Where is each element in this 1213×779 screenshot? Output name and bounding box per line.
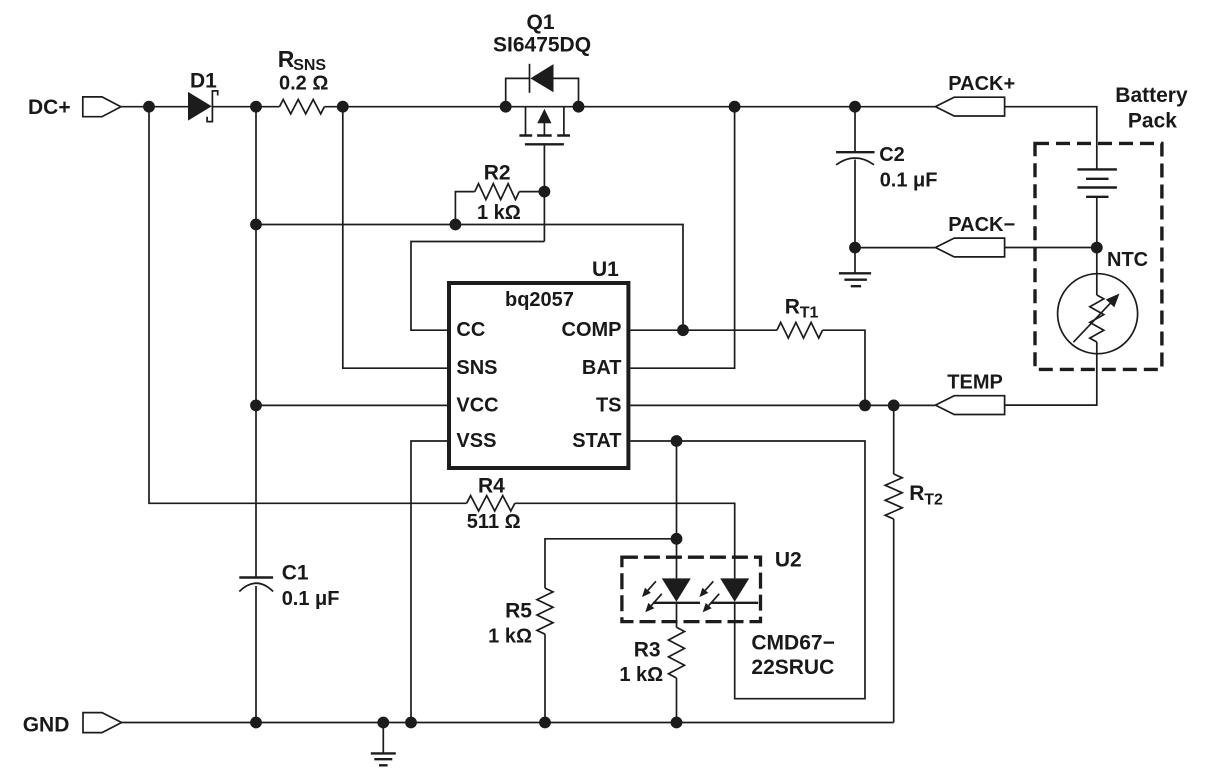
svg-text:D1: D1 <box>190 70 217 93</box>
svg-text:T2: T2 <box>924 492 943 509</box>
node NTC junction <box>1091 242 1103 254</box>
svg-text:511 Ω: 511 Ω <box>467 511 521 533</box>
wire Q1 gate down <box>543 144 545 241</box>
node R2 left lead junction <box>450 219 462 231</box>
node ground rail C1 <box>250 717 262 729</box>
svg-text:BAT: BAT <box>582 357 622 379</box>
wire C1 bottom to ground rail <box>255 586 257 723</box>
transistor Q1 source stub <box>525 107 527 136</box>
svg-text:PACK+: PACK+ <box>948 73 1015 95</box>
node ground rail R5 <box>539 717 551 729</box>
wire TS node to RT2 <box>893 405 895 474</box>
wire top rail RSNS to PACK+ <box>324 106 935 108</box>
wire STAT node down to LED1 <box>676 441 678 578</box>
svg-text:C1: C1 <box>282 561 309 584</box>
svg-text:VSS: VSS <box>456 430 496 452</box>
svg-text:TEMP: TEMP <box>947 371 1003 393</box>
resistor R4 <box>467 496 515 511</box>
transistor Q1 channel bars <box>519 134 570 136</box>
node ground rail VSS <box>405 717 417 729</box>
svg-text:U2: U2 <box>775 549 802 572</box>
svg-text:GND: GND <box>23 713 70 736</box>
svg-text:DC+: DC+ <box>28 96 71 119</box>
svg-text:1 kΩ: 1 kΩ <box>488 626 532 648</box>
resistor RT2 <box>885 474 902 519</box>
dashed box U2 <box>622 557 761 621</box>
svg-text:U1: U1 <box>592 258 619 281</box>
port PACK+ tag <box>935 97 1004 116</box>
svg-text:R: R <box>785 296 800 319</box>
wire LED1 cathode to R3 <box>676 602 678 628</box>
svg-text:Pack: Pack <box>1128 110 1177 133</box>
node BAT rail junction <box>729 101 741 113</box>
svg-text:R2: R2 <box>484 162 511 185</box>
node COMP junction <box>677 324 689 336</box>
transistor Q1 drain stub <box>563 107 565 136</box>
node RSNS right junction <box>337 101 349 113</box>
wire DC+ node down to R4 <box>149 107 467 504</box>
node C2 rail junction <box>849 101 861 113</box>
thermistor NTC arrow line <box>1073 303 1110 342</box>
svg-text:1 kΩ: 1 kΩ <box>477 202 521 224</box>
thermistor NTC arrow head <box>1106 294 1120 308</box>
svg-text:1 kΩ: 1 kΩ <box>619 664 663 686</box>
node VCC junction <box>250 400 262 412</box>
port GND tag <box>83 713 122 733</box>
resistor R3 <box>669 627 685 678</box>
node ground rail earth stub <box>377 717 389 729</box>
wire NTC bottom to TEMP line <box>1005 342 1097 405</box>
node D1 cathode junction <box>250 101 262 113</box>
port DC+ tag <box>83 97 121 117</box>
wire PACK- to NTC node <box>1005 247 1097 249</box>
resistor RSNS <box>280 100 325 114</box>
thermistor NTC circle <box>1058 274 1138 354</box>
wire vertical from D1 node through C1 <box>255 107 257 578</box>
ground symbol C2 stub <box>854 248 856 274</box>
svg-text:0.1 μF: 0.1 μF <box>880 169 938 191</box>
wire RSNS node to SNS pin <box>343 107 447 369</box>
node Q1 source junction <box>500 101 512 113</box>
wire STAT pin and LED2 return loop <box>630 441 865 699</box>
svg-text:R4: R4 <box>478 475 505 498</box>
svg-text:R: R <box>909 482 924 505</box>
transistor Q1 gate plate <box>525 143 564 145</box>
wire R2 line to COMP node <box>256 225 683 331</box>
thermistor NTC zigzag <box>1090 295 1104 342</box>
svg-text:0.1 μF: 0.1 μF <box>282 588 340 610</box>
wire COMP pin to RT1 <box>630 329 777 331</box>
wire VCC pin <box>256 404 447 406</box>
wire ground rail <box>122 722 894 724</box>
wire R2 right lead <box>519 191 544 193</box>
svg-text:STAT: STAT <box>572 430 621 452</box>
transistor Q1 body-diode triangle <box>530 64 553 92</box>
LED left cathode bar <box>653 602 700 604</box>
wire R5 top lead <box>545 539 677 588</box>
capacitor C2 curved plate <box>836 158 874 165</box>
svg-text:COMP: COMP <box>562 319 622 341</box>
ground symbol bottom stub <box>382 723 384 754</box>
node DC+ junction <box>143 101 155 113</box>
wire C2 node to PACK- tag <box>855 247 935 249</box>
wire R5 bottom lead <box>544 634 546 722</box>
svg-text:Battery: Battery <box>1115 84 1188 107</box>
svg-text:SNS: SNS <box>456 357 497 379</box>
resistor R2 <box>475 184 519 200</box>
wire TS pin to TEMP tag <box>630 404 935 406</box>
wire top rail DC+ to D1 anode <box>121 106 189 108</box>
svg-text:Q1: Q1 <box>527 11 555 34</box>
svg-text:PACK−: PACK− <box>948 214 1015 236</box>
capacitor C2 top plate <box>836 151 874 153</box>
svg-text:bq2057: bq2057 <box>505 289 574 311</box>
svg-text:R5: R5 <box>505 600 532 623</box>
svg-text:0.2 Ω: 0.2 Ω <box>279 73 328 95</box>
node R2 line left junction <box>250 219 262 231</box>
port TEMP tag <box>935 396 1004 415</box>
svg-text:VCC: VCC <box>456 394 498 416</box>
wire RT2 to ground rail <box>893 519 895 723</box>
node LED1-R5 junction <box>671 533 683 545</box>
port PACK- tag <box>935 238 1004 257</box>
node C2 PACK- junction <box>849 242 861 254</box>
LED right triangle <box>720 578 749 601</box>
wire BAT pin to top rail <box>630 107 734 369</box>
LED right cathode bar <box>711 602 758 604</box>
wire battery to NTC node <box>1096 197 1098 248</box>
node STAT junction <box>671 435 683 447</box>
wire R3 bottom to ground rail <box>676 678 678 723</box>
node TS-RT2 junction <box>888 400 900 412</box>
svg-text:R3: R3 <box>634 639 661 662</box>
LED left emission arrow heads <box>642 588 651 597</box>
battery cell plates <box>1077 169 1117 196</box>
node ground rail R3 <box>671 717 683 729</box>
wire R2 left lead <box>455 192 474 225</box>
capacitor C1 curved plate <box>239 583 273 591</box>
IC U1 box <box>449 283 628 468</box>
thermistor NTC top wire <box>1096 248 1098 295</box>
node TS-RT1 junction <box>859 400 871 412</box>
transistor Q1 body arrow line <box>543 120 545 137</box>
svg-text:NTC: NTC <box>1107 249 1148 271</box>
wire RT1 to TS line <box>823 330 866 405</box>
wire C2 bottom lead <box>854 160 856 248</box>
dashed box battery pack <box>1035 143 1162 369</box>
svg-text:CC: CC <box>456 319 485 341</box>
node Q1 drain junction <box>573 101 585 113</box>
wire R4 to LED2 anode <box>515 503 735 578</box>
svg-text:SI6475DQ: SI6475DQ <box>493 34 591 57</box>
transistor Q1 body-diode cathode wire <box>554 78 579 106</box>
resistor RT1 <box>777 322 823 338</box>
capacitor C1 top plate <box>239 576 273 578</box>
diode D1 schottky cathode bar <box>207 91 218 122</box>
transistor Q1 body-diode cathode bar <box>529 64 531 93</box>
ground symbol bottom bars <box>371 753 396 765</box>
wire D1 cathode to RSNS <box>212 106 279 108</box>
LED right emission arrow heads <box>699 588 708 597</box>
svg-text:22SRUC: 22SRUC <box>751 656 834 679</box>
LED right emission arrow lines <box>705 581 719 605</box>
wire gate line to CC pin <box>411 242 544 331</box>
svg-text:SNS: SNS <box>293 57 326 74</box>
resistor R5 <box>537 588 553 634</box>
wire C2 top lead <box>854 107 856 153</box>
LED left triangle <box>662 578 691 601</box>
svg-text:TS: TS <box>596 394 622 416</box>
wire PACK+ to battery <box>1005 107 1097 170</box>
svg-text:T1: T1 <box>800 305 819 322</box>
ground symbol C2 bars <box>839 273 871 286</box>
transistor Q1 body arrow head <box>537 109 551 123</box>
node R2 gate junction <box>539 186 551 198</box>
diode D1 triangle <box>188 92 212 121</box>
transistor Q1 body-diode anode wire <box>506 78 530 106</box>
LED left emission arrow lines <box>648 581 662 605</box>
wire VSS pin to ground rail <box>411 441 447 723</box>
svg-text:CMD67−: CMD67− <box>751 632 834 655</box>
svg-text:C2: C2 <box>879 144 905 166</box>
